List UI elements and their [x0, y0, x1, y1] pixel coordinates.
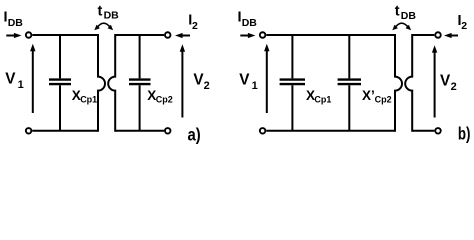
svg-text:2: 2 — [204, 80, 210, 92]
svg-text:Cp2: Cp2 — [156, 94, 173, 104]
terminal node bottom-left a — [26, 128, 32, 134]
svg-text:2: 2 — [461, 20, 467, 32]
svg-text:1: 1 — [252, 80, 258, 92]
wire bottom-right segment a — [115, 130, 164, 132]
capacitor XCp1 branch wires b — [291, 35, 293, 131]
wire bottom-left segment b — [266, 130, 395, 132]
svg-text:2: 2 — [451, 81, 457, 93]
wire top-right segment a — [115, 34, 164, 36]
svg-text:V: V — [5, 71, 16, 88]
svg-text:t: t — [98, 3, 103, 19]
capacitor X'Cp2 branch wires b — [348, 35, 350, 131]
V1 arrow shaft a — [32, 51, 34, 113]
IDB arrowhead b — [248, 33, 256, 38]
svg-text:2: 2 — [192, 20, 198, 32]
tDB coupling arc a — [97, 23, 111, 28]
coupling line right (t_DB gap) b — [405, 34, 412, 132]
I2 arrowhead a — [175, 33, 183, 38]
svg-text:b): b) — [458, 123, 471, 143]
V1 arrow shaft b — [266, 51, 268, 113]
capacitor XCp1 branch wires a — [59, 35, 61, 131]
svg-text:X’: X’ — [362, 88, 375, 103]
IDB arrowhead a — [14, 33, 22, 38]
svg-text:Cp2: Cp2 — [375, 94, 392, 104]
V1 arrowhead b — [264, 44, 269, 51]
terminal node top-right a — [165, 32, 171, 38]
svg-text:V: V — [440, 72, 451, 89]
capacitor X'Cp2 plates b — [338, 80, 361, 85]
capacitor XCp1 plates b — [280, 80, 305, 85]
terminal node bottom-right a — [165, 128, 171, 134]
svg-text:DB: DB — [104, 10, 120, 22]
IDB arrow shaft a — [6, 35, 14, 37]
tDB arc arrowhead right a — [108, 25, 114, 31]
V2 arrowhead b — [432, 45, 437, 52]
I2 arrowhead b — [444, 33, 452, 38]
tDB coupling arc b — [395, 23, 409, 28]
svg-text:V: V — [239, 71, 250, 88]
tDB arc arrowhead right b — [406, 25, 412, 31]
coupling line right (t_DB gap) a — [108, 34, 115, 132]
terminal node top-right b — [435, 32, 441, 38]
svg-text:Cp1: Cp1 — [80, 94, 97, 104]
svg-text:a): a) — [188, 125, 201, 145]
I2 arrow shaft b — [451, 35, 458, 37]
V1 arrowhead a — [30, 44, 35, 51]
svg-text:DB: DB — [8, 17, 24, 29]
wire top-left segment a — [32, 34, 98, 36]
tDB arc arrowhead left a — [94, 25, 100, 31]
wire top-right segment b — [412, 34, 434, 36]
svg-text:t: t — [395, 4, 400, 20]
capacitor XCp1 plates a — [49, 80, 71, 85]
wire bottom-left segment a — [32, 130, 98, 132]
capacitor XCp2 plates a — [129, 80, 151, 85]
tDB arc arrowhead left b — [392, 25, 398, 31]
V2 arrowhead a — [180, 44, 185, 51]
V2 arrow shaft b — [434, 52, 436, 117]
wire bottom-right segment b — [412, 130, 434, 132]
svg-text:1: 1 — [18, 79, 24, 91]
IDB arrow shaft b — [240, 35, 248, 37]
terminal node bottom-left b — [260, 128, 266, 134]
coupling line left (t_DB gap) a — [98, 34, 105, 132]
I2 arrow shaft a — [182, 35, 190, 37]
V2 arrow shaft a — [181, 52, 183, 118]
coupling line left (t_DB gap) b — [395, 34, 402, 132]
capacitor XCp2 branch wires a — [139, 35, 141, 131]
wire top-left segment b — [266, 34, 395, 36]
terminal node top-left b — [260, 32, 266, 38]
terminal node bottom-right b — [435, 128, 441, 134]
terminal node top-left a — [26, 32, 32, 38]
svg-text:DB: DB — [242, 17, 258, 29]
svg-text:DB: DB — [401, 10, 417, 22]
svg-text:Cp1: Cp1 — [314, 94, 331, 104]
